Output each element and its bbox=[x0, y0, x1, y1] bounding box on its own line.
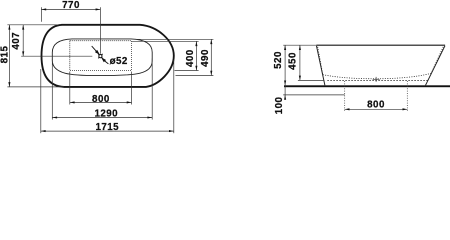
svg-text:100: 100 bbox=[274, 96, 285, 114]
dim 1290 right arrow bbox=[147, 116, 152, 118]
side right wall bbox=[426, 46, 445, 86]
dim 815 bottom arrow bbox=[8, 82, 10, 87]
dim 407 top arrow bbox=[22, 25, 24, 30]
side right wall hidden (dotted) bbox=[431, 47, 443, 74]
dim 800 (side) left arrow bbox=[345, 108, 350, 110]
dim 407 bottom arrow bbox=[22, 51, 24, 56]
svg-text:815: 815 bbox=[0, 46, 10, 64]
dim 770 right arrow bbox=[96, 8, 101, 10]
dim 490 bottom arrow bbox=[210, 71, 212, 76]
dim 450 line bbox=[299, 45, 301, 80]
drain circle bbox=[98, 54, 102, 58]
svg-text:800: 800 bbox=[367, 100, 385, 111]
dim 400 top arrow bbox=[195, 41, 197, 46]
dim 1715 left arrow bbox=[41, 130, 46, 132]
dim 800 line bbox=[70, 101, 132, 103]
dim 400 bottom extension bbox=[175, 70, 199, 72]
dim 1715 right extension bbox=[173, 60, 175, 133]
svg-text:1290: 1290 bbox=[94, 108, 118, 119]
side bottom center mark horizontal bbox=[373, 78, 380, 80]
dim 800 (side) right extension dotted bbox=[406, 81, 408, 111]
dim 800 (side) right arrow bbox=[403, 108, 408, 110]
dim 490 top extension bbox=[136, 38, 214, 40]
drain leader lower segment bbox=[105, 61, 109, 64]
rim top line bbox=[316, 44, 445, 46]
dim 1715 right arrow bbox=[169, 130, 174, 132]
dim 800 left arrow bbox=[70, 101, 75, 103]
floor line bbox=[284, 85, 450, 87]
dim 490 line bbox=[210, 39, 212, 75]
dim 1715 left extension bbox=[40, 69, 42, 133]
dim 1290 line bbox=[52, 117, 152, 119]
side left wall bbox=[316, 46, 324, 86]
dim 800 left extension bbox=[69, 72, 71, 105]
dim 100 bottom arrow (pointing up from below) bbox=[284, 95, 286, 100]
dim 800 right arrow bbox=[127, 101, 132, 103]
dim 520/100 line bbox=[284, 45, 286, 98]
dim 490 top arrow bbox=[210, 39, 212, 44]
dim 800 right extension bbox=[131, 72, 133, 105]
side interior bottom hidden (dotted sag) bbox=[323, 73, 431, 78]
svg-text:770: 770 bbox=[62, 0, 80, 11]
dim 400 bottom arrow bbox=[195, 66, 197, 71]
dim 1715 line bbox=[41, 130, 174, 132]
rim left extension bbox=[283, 44, 316, 46]
dim 815 bottom extension bbox=[7, 86, 64, 88]
dim 400 top extension bbox=[132, 40, 199, 42]
dim 1290 right extension bbox=[151, 59, 153, 120]
dim 800 (side) left extension dotted bbox=[344, 81, 346, 111]
side bottom center mark vertical bbox=[375, 77, 377, 82]
svg-text:407: 407 bbox=[11, 32, 22, 50]
tub inner basin outline bbox=[52, 39, 152, 76]
svg-text:490: 490 bbox=[200, 49, 211, 67]
dim 490 bottom extension bbox=[176, 75, 214, 77]
dim 815/407 top extension bbox=[7, 24, 61, 26]
dim 520 bottom arrow bbox=[284, 81, 286, 86]
svg-text:400: 400 bbox=[185, 49, 196, 67]
drain leader lower arrowhead bbox=[102, 58, 106, 62]
dim 770 left arrow bbox=[41, 8, 46, 10]
svg-text:ø52: ø52 bbox=[110, 56, 128, 67]
dim 770 line bbox=[41, 8, 100, 10]
svg-text:800: 800 bbox=[92, 94, 110, 105]
dim 770 extension line right (to drain) bbox=[99, 7, 101, 54]
dim 407 bottom extension (centerline to drain) bbox=[21, 55, 92, 57]
dim 770 extension line left bbox=[40, 7, 42, 22]
svg-text:520: 520 bbox=[273, 51, 284, 69]
tub bottom dashed rectangle bbox=[70, 41, 132, 71]
side bottom hidden (dashed) bbox=[327, 79, 428, 81]
dim 520 top arrow bbox=[284, 45, 286, 50]
drain leader upper segment bbox=[92, 46, 97, 51]
side left wall hidden (dotted) bbox=[318, 47, 323, 75]
dim 815 line bbox=[8, 25, 10, 87]
dim 450 bottom extension bbox=[298, 79, 325, 81]
lower reference line (100) bbox=[283, 94, 345, 96]
dim 450 bottom arrow bbox=[299, 76, 301, 81]
dim 407 line bbox=[22, 25, 24, 56]
tub outer outline bbox=[42, 25, 174, 87]
svg-text:1715: 1715 bbox=[95, 122, 119, 133]
dim 800 (side) line bbox=[345, 108, 408, 110]
drain leader upper arrowhead bbox=[96, 51, 100, 55]
svg-text:450: 450 bbox=[287, 52, 298, 70]
dim 400 line bbox=[195, 41, 197, 70]
dim 450 top arrow bbox=[299, 45, 301, 50]
dim 815 top arrow bbox=[8, 25, 10, 30]
dim 1290 left arrow bbox=[52, 116, 57, 118]
dim 1290 left extension bbox=[51, 59, 53, 120]
